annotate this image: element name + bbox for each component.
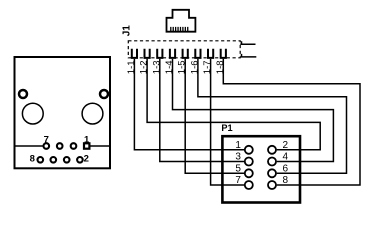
J1 pin label 1-8: [215, 60, 226, 74]
footprint label 7: [44, 134, 49, 145]
svg-text:1-3: 1-3: [151, 60, 162, 74]
svg-text:1: 1: [84, 134, 90, 145]
svg-text:1-8: 1-8: [215, 60, 226, 74]
J1 pin label 1-4: [164, 60, 175, 74]
svg-text:1-6: 1-6: [189, 60, 200, 74]
footprint pad 1 (square): [83, 142, 91, 150]
svg-text:1-7: 1-7: [202, 60, 213, 74]
P1 pin 2: [268, 146, 276, 154]
svg-text:4: 4: [283, 152, 289, 163]
wire J1-7 to P1-7: [211, 59, 245, 185]
J1 pin label 1-1: [126, 60, 137, 74]
P1 pin 7: [245, 181, 253, 189]
svg-text:6: 6: [283, 163, 289, 174]
footprint pad 6: [51, 157, 57, 163]
wire J1-1 to P1-1: [134, 59, 244, 150]
J1 pin label 1-7: [202, 60, 213, 74]
svg-text:8: 8: [30, 154, 35, 165]
svg-text:8: 8: [283, 175, 289, 186]
svg-text:3: 3: [235, 152, 241, 163]
J1 pin 2 contact: [145, 49, 150, 58]
P1 pin label 4: [283, 152, 289, 163]
J1 shield stub upper: [240, 41, 255, 44]
J1 shield stub lower: [240, 54, 256, 57]
footprint label 2: [84, 154, 89, 165]
svg-text:5: 5: [235, 163, 241, 174]
J1 pin 4 contact: [170, 49, 175, 58]
P1 pin 6: [268, 169, 276, 177]
P1 pin label 7: [235, 175, 241, 186]
connector P1 reference label: [221, 123, 232, 133]
footprint mounting hole left: [19, 90, 27, 98]
J1 pin 3 contact: [157, 49, 162, 58]
P1 pin label 5: [235, 163, 241, 174]
footprint pad 4: [64, 157, 70, 163]
connector J1 plug icon: [167, 10, 196, 32]
wire J1-6 to P1-6: [198, 59, 347, 173]
footprint pad 8: [38, 157, 44, 163]
footprint mounting hole right: [100, 90, 108, 98]
P1 pin 4: [268, 158, 276, 166]
P1 pin 8: [268, 181, 276, 189]
J1 pin 1 contact: [132, 49, 137, 58]
footprint label 8: [30, 154, 35, 165]
wire J1-4 to P1-4: [173, 59, 334, 162]
J1 reference label: [121, 25, 132, 37]
footprint pad 2: [77, 157, 83, 163]
P1 pin label 3: [235, 152, 241, 163]
footprint pad 3: [71, 143, 77, 149]
P1 pin 1: [245, 146, 253, 154]
footprint label 1: [84, 134, 90, 145]
P1 pin 3: [245, 158, 253, 166]
svg-text:2: 2: [84, 154, 89, 165]
svg-text:7: 7: [44, 134, 49, 145]
J1 pin 6 contact: [195, 49, 200, 58]
svg-text:1: 1: [235, 140, 241, 151]
footprint post hole right: [82, 103, 103, 124]
P1 pin label 1: [235, 140, 241, 151]
P1 pin label 8: [283, 175, 289, 186]
footprint pad 7: [44, 143, 50, 149]
footprint centerline right segment: [90, 145, 110, 147]
svg-text:2: 2: [283, 140, 289, 151]
wire J1-3 to P1-3: [160, 59, 244, 162]
footprint pad 5: [57, 143, 63, 149]
J1 pin 8 contact: [221, 49, 226, 58]
P1 pin 5: [245, 169, 253, 177]
J1 pin label 1-5: [177, 60, 188, 74]
svg-text:1-1: 1-1: [126, 60, 137, 74]
wire J1-8 to P1-8: [223, 59, 360, 185]
svg-text:7: 7: [235, 175, 241, 186]
P1 pin label 2: [283, 140, 289, 151]
svg-text:1-2: 1-2: [139, 60, 150, 74]
J1 pin label 1-2: [139, 60, 150, 74]
J1 pin label 1-3: [151, 60, 162, 74]
wire J1-2 to P1-2: [147, 59, 320, 150]
P1 pin label 6: [283, 163, 289, 174]
svg-text:1-5: 1-5: [177, 60, 188, 74]
svg-text:1-4: 1-4: [164, 60, 175, 74]
svg-text:P1: P1: [221, 123, 232, 133]
svg-text:J1: J1: [121, 25, 132, 37]
J1 pin label 1-6: [189, 60, 200, 74]
footprint post hole left: [22, 103, 43, 124]
J1 pin 7 contact: [208, 49, 213, 58]
wire J1-5 to P1-5: [185, 59, 244, 173]
J1 symbol dashed box: [128, 41, 240, 58]
footprint centerline left segment: [15, 145, 43, 147]
connector footprint outline: [15, 57, 111, 168]
J1 pin 5 contact: [183, 49, 188, 58]
P1 body box: [222, 136, 300, 202]
